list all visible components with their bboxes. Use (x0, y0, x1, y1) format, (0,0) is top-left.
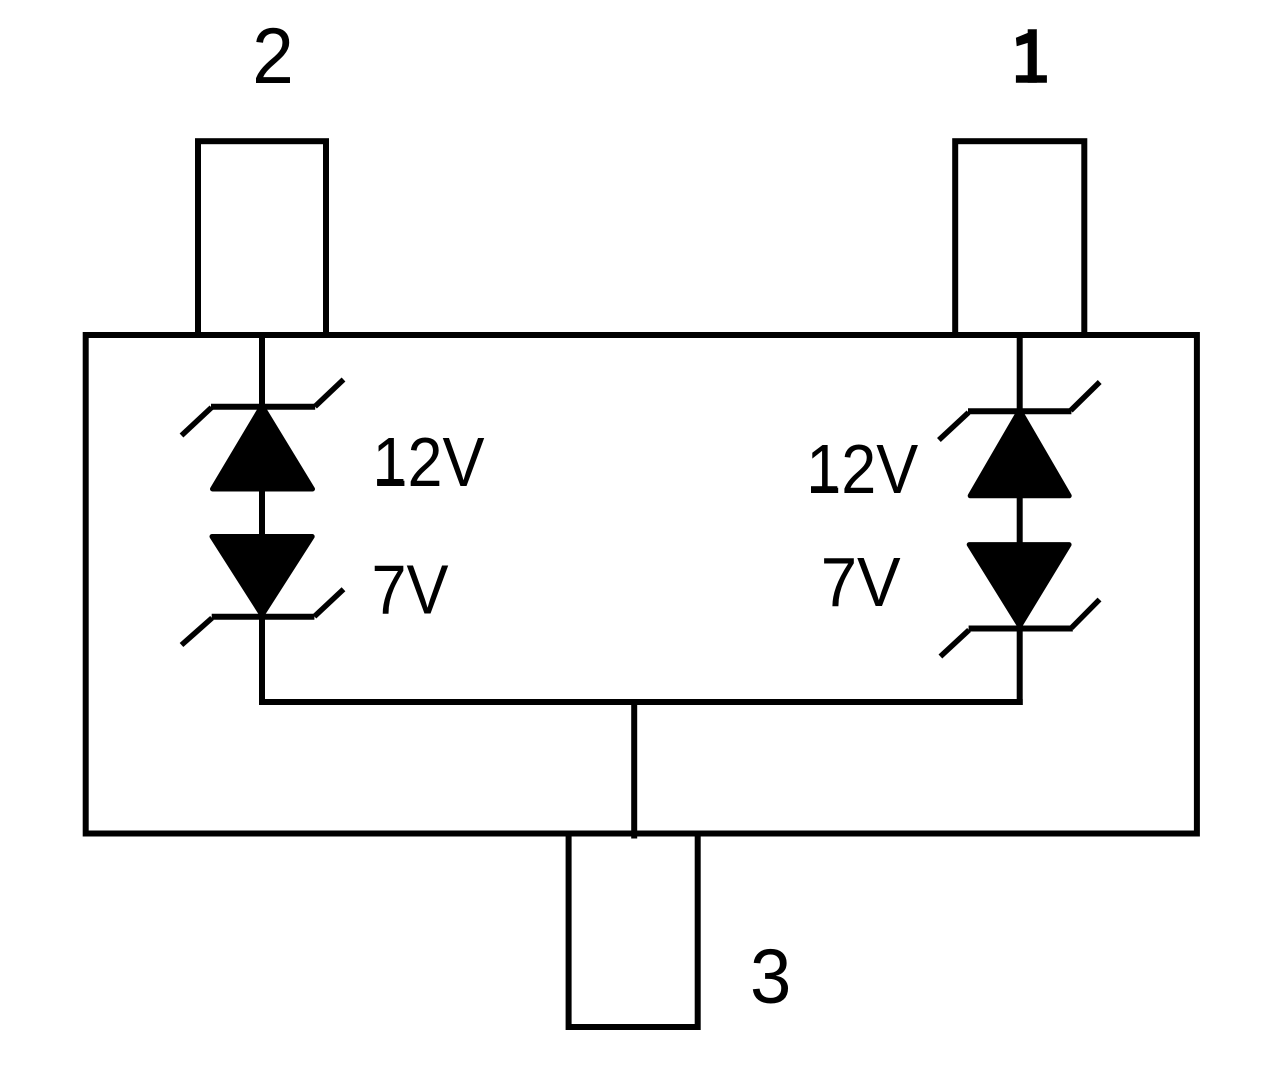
zener D4 cathode bend right (1071, 600, 1099, 629)
zener D3 cathode bend left (939, 413, 969, 441)
pin 3 pad (569, 834, 698, 1028)
zener D4 7V triangle (anode, pointing down) (969, 545, 1069, 626)
zener D1 12V cathode bar (211, 404, 315, 410)
pin 1 pad (955, 141, 1084, 335)
svg-text:7V: 7V (372, 551, 449, 629)
svg-text:12V: 12V (373, 423, 485, 501)
zener D4 cathode bend left (940, 630, 969, 657)
wire pin2 to D1 cathode (259, 335, 265, 409)
label D1 digit-1 foot serif (377, 479, 403, 486)
zener D2 cathode bar (212, 614, 315, 620)
wire D4 cathode down (1017, 629, 1023, 706)
zener D1 cathode bend right (315, 380, 344, 407)
zener D2 cathode bend left (182, 618, 213, 645)
wire pin1 to D3 cathode (1017, 335, 1023, 413)
wire D1 anode to D2 anode (259, 487, 265, 537)
zener D3 triangle (anode, pointing up) (970, 411, 1069, 496)
wire D2 cathode down (259, 617, 265, 705)
zener D1 triangle (anode, pointing up) (213, 406, 313, 489)
label D3 digit-1 foot serif (811, 486, 837, 493)
svg-text:7V: 7V (821, 543, 901, 621)
zener D4 cathode bar (969, 626, 1073, 632)
svg-text:2: 2 (252, 11, 293, 100)
zener D2 7V triangle (anode, pointing down) (212, 537, 312, 616)
svg-text:3: 3 (750, 934, 791, 1020)
pin 2 pad (198, 141, 326, 335)
pin 1 label (drawn glyph) (1016, 29, 1047, 83)
wire D3 anode to D4 anode (1017, 494, 1023, 544)
svg-text:12V: 12V (806, 430, 918, 508)
wire bus to pin 3 (631, 702, 637, 839)
zener D2 cathode bend right (314, 589, 343, 616)
zener D3 12V cathode bar (968, 408, 1071, 414)
zener D1 cathode bend left (182, 408, 212, 436)
package body U1 (SOT-23 outline) (86, 335, 1197, 834)
bottom bus wire joining both branches (259, 699, 1023, 705)
zener D3 cathode bend right (1071, 382, 1100, 411)
